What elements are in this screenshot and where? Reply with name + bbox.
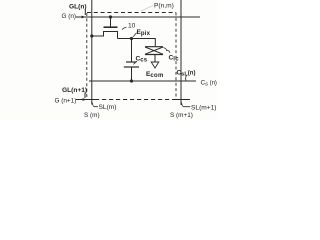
svg-text:CsL(n): CsL(n)	[177, 70, 196, 78]
wire source line SL(m+1) vertical	[180, 0, 182, 105]
transistor 10 gate bar	[104, 26, 118, 28]
junction dot Ccs on CsL(n)	[130, 79, 133, 82]
wire Clc to Ecom terminal	[154, 55, 156, 62]
leader line label P(n,m)	[141, 6, 153, 12]
svg-text:S (m+1): S (m+1)	[170, 112, 193, 119]
pixel boundary P(n,m) dashed left edge	[86, 13, 88, 100]
wire TFT gate lead from GL(n)	[110, 17, 112, 27]
wire gate line GL(n) horizontal	[76, 16, 200, 18]
junction dot node Epix to Ccs	[130, 37, 133, 40]
wire Ccs to CsL(n)	[131, 67, 133, 81]
svg-text:G (n): G (n)	[62, 13, 77, 20]
leader line label CsL(n)	[185, 76, 188, 81]
arrowhead signal G(n)	[82, 16, 86, 19]
svg-text:P(n,m): P(n,m)	[154, 3, 174, 10]
svg-text:10: 10	[128, 23, 136, 30]
pixel boundary P(n,m) dashed right edge	[175, 13, 177, 100]
svg-text:SL(m): SL(m)	[99, 104, 117, 111]
leader line label Clc	[164, 48, 171, 53]
leader line label GL(n)	[84, 10, 86, 16]
wire source line SL(m) vertical	[91, 0, 93, 105]
common electrode terminal Ecom open arrow	[151, 62, 159, 68]
svg-text:S (m): S (m)	[84, 112, 100, 119]
wire Ccs branch from node Epix	[131, 39, 133, 62]
wire gate line GL(n+1) dashed segment	[95, 99, 176, 101]
svg-text:Epix: Epix	[137, 29, 151, 37]
junction dot source tap on SL(m)	[90, 34, 93, 37]
svg-text:Cs (n): Cs (n)	[201, 80, 217, 88]
pixel boundary P(n,m) dashed top edge	[87, 12, 176, 14]
capacitor Clc liquid crystal top plate	[145, 46, 163, 48]
capacitor Ccs top plate	[126, 61, 137, 63]
leader line label SL(m+1)	[182, 103, 191, 107]
wire gate line GL(n+1) left solid stub	[76, 99, 95, 101]
capacitor Clc liquid crystal bottom plate	[145, 54, 163, 56]
transistor 10 channel (source-drain path from SL(m))	[92, 32, 118, 39]
junction dot gate tap on GL(n)	[109, 15, 112, 18]
svg-text:G (n+1): G (n+1)	[55, 98, 77, 105]
leader line label SL(m)	[92, 103, 98, 107]
wire gate line GL(n+1) right solid stub	[176, 99, 190, 101]
wire storage capacitor line CsL(n)	[89, 80, 196, 82]
leader line label 10 to gate	[122, 28, 127, 30]
svg-text:Ecom: Ecom	[146, 71, 164, 79]
svg-text:GL(n+1): GL(n+1)	[62, 87, 87, 94]
svg-text:SL(m+1): SL(m+1)	[191, 105, 216, 112]
capacitor Clc crossed diagonals	[145, 47, 163, 54]
leader line label GL(n+1)	[84, 93, 86, 99]
leader line label Ccs	[134, 61, 138, 64]
svg-text:GL(n): GL(n)	[69, 4, 87, 11]
arrowhead signal G(n+1)	[83, 98, 87, 101]
svg-text:Ccs: Ccs	[136, 56, 148, 64]
leader line label Epix to node	[133, 33, 136, 37]
wire node Epix horizontal	[118, 39, 156, 47]
svg-text:Clc: Clc	[169, 55, 180, 63]
capacitor Ccs bottom plate	[124, 66, 139, 68]
